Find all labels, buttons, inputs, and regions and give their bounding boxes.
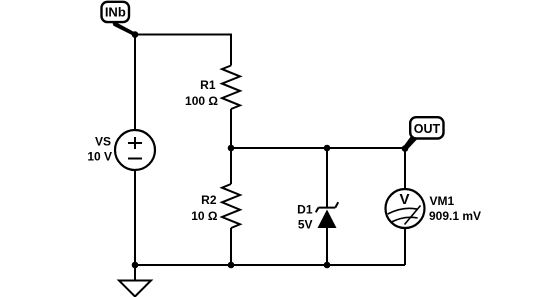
svg-text:V: V — [399, 191, 409, 208]
svg-text:5V: 5V — [298, 218, 313, 232]
svg-text:VM1: VM1 — [430, 194, 455, 208]
svg-text:VS: VS — [95, 135, 111, 149]
svg-text:R2: R2 — [201, 193, 217, 207]
svg-text:909.1 mV: 909.1 mV — [429, 209, 481, 223]
svg-text:100 Ω: 100 Ω — [185, 94, 218, 108]
svg-text:D1: D1 — [297, 203, 313, 217]
svg-text:10 V: 10 V — [87, 150, 112, 164]
svg-text:10 Ω: 10 Ω — [191, 209, 218, 223]
svg-text:OUT: OUT — [414, 122, 441, 136]
svg-text:R1: R1 — [200, 78, 216, 92]
svg-text:INb: INb — [105, 5, 126, 20]
